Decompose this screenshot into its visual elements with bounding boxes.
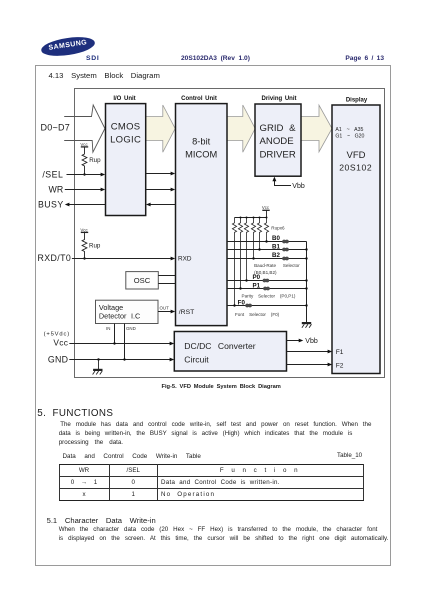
svg-text:/SEL: /SEL <box>42 169 63 179</box>
svg-text:Driving Unit: Driving Unit <box>262 96 297 102</box>
Samsung logo ellipse <box>40 34 96 58</box>
svg-text:Vcc: Vcc <box>262 205 270 210</box>
junction dot IN-Vcc <box>113 342 115 344</box>
wire OSC to MICOM 2 <box>158 283 175 285</box>
GRID & ANODE DRIVER block U3 <box>255 104 301 176</box>
svg-text:Detector I.C: Detector I.C <box>99 311 140 320</box>
svg-text:LOGIC: LOGIC <box>110 134 141 145</box>
OSC block <box>126 272 159 289</box>
svg-text:Vcc: Vcc <box>53 337 68 347</box>
8-bit MICOM block U2 <box>176 104 228 326</box>
svg-text:(B0,B1,B2): (B0,B1,B2) <box>254 270 277 275</box>
wire row P1 <box>227 288 307 290</box>
section 5 paragraph <box>60 421 371 428</box>
svg-text:F2: F2 <box>336 362 344 369</box>
section 5.1 heading <box>47 516 156 525</box>
junction dot GNDpin-GND <box>123 358 125 360</box>
svg-text:Font Selector (F0): Font Selector (F0) <box>235 312 280 317</box>
data and control code write-in table <box>59 464 364 501</box>
svg-text:BUSY: BUSY <box>38 200 64 210</box>
jumper B0 <box>282 240 289 244</box>
Voltage Detector I.C block <box>96 300 159 323</box>
bus arrow MICOM to driver <box>227 105 255 152</box>
svg-text:RXD: RXD <box>178 256 192 263</box>
svg-text:B2: B2 <box>272 252 280 259</box>
table number <box>337 452 362 459</box>
bus arrow D0-D7 to CMOS <box>64 105 105 152</box>
svg-text:A1 ~ A35: A1 ~ A35 <box>335 127 363 133</box>
wire Vbb to driver <box>275 181 292 186</box>
selector Vcc rail <box>235 217 267 219</box>
svg-text:Vbb: Vbb <box>305 338 318 345</box>
wire row B1 <box>227 249 307 251</box>
svg-text:Display: Display <box>346 97 368 103</box>
table label <box>63 453 201 460</box>
jumper P0 <box>263 279 270 283</box>
rail junction dots <box>240 217 268 219</box>
jumper F0 <box>245 304 252 308</box>
row junction dots <box>233 240 267 306</box>
svg-text:ANODE: ANODE <box>260 136 294 147</box>
wire row B2 <box>227 258 307 260</box>
svg-text:IN: IN <box>106 326 110 331</box>
CMOS LOGIC block U1 <box>106 104 146 216</box>
Samsung logo text <box>40 34 96 58</box>
wire Vbb output of DC/DC <box>287 340 300 342</box>
wire WR <box>65 189 102 191</box>
svg-text:I/O Unit: I/O Unit <box>113 96 135 102</box>
figure caption <box>162 384 281 390</box>
wire CMOS to MICOM sel <box>146 173 172 175</box>
junction dot Rup1-/SEL <box>83 173 85 175</box>
wire Vcc rail <box>69 343 170 345</box>
header page number <box>345 55 384 62</box>
pull-up resistor Rup1 with Vcc <box>80 142 88 175</box>
svg-text:F1: F1 <box>336 349 344 356</box>
svg-text:Rup: Rup <box>89 157 101 164</box>
svg-text:Parity Selector (P0,P1): Parity Selector (P0,P1) <box>242 293 296 298</box>
wire GND rail <box>69 359 170 361</box>
junction dot Rup2-RXD <box>83 257 85 259</box>
svg-text:OSC: OSC <box>134 276 151 285</box>
svg-text:CMOS: CMOS <box>111 121 141 132</box>
svg-text:F0: F0 <box>238 300 246 307</box>
svg-text:Circuit: Circuit <box>184 354 209 364</box>
svg-text:WR: WR <box>49 184 64 194</box>
ground symbol left <box>93 360 103 375</box>
svg-text:DRIVER: DRIVER <box>260 149 296 160</box>
svg-text:G1 ~ G20: G1 ~ G20 <box>335 134 364 140</box>
svg-text:VFD: VFD <box>347 150 366 161</box>
svg-text:P0: P0 <box>253 274 261 281</box>
jumper B2 <box>282 257 289 261</box>
DC/DC converter block <box>174 332 286 372</box>
wire row P0 <box>227 280 307 282</box>
svg-text:B1: B1 <box>272 244 280 251</box>
SDI logo text <box>86 55 99 62</box>
wire /SEL <box>67 174 102 176</box>
svg-text:GND: GND <box>48 354 68 364</box>
wire OSC to MICOM 1 <box>158 275 175 277</box>
ground symbol selector <box>302 323 312 328</box>
wire row F0 <box>227 305 307 307</box>
bus arrow CMOS to MICOM <box>146 105 176 152</box>
outer content box <box>35 65 392 567</box>
junction dot ground-GND <box>97 358 99 360</box>
wire CMOS to MICOM wr <box>146 189 172 191</box>
wire RXD/T0 to MICOM <box>72 258 172 260</box>
svg-text:B0: B0 <box>272 235 280 242</box>
bus arrow driver to VFD <box>301 105 332 152</box>
jumper B1 <box>282 248 289 252</box>
svg-text:GRID &: GRID & <box>260 123 297 134</box>
svg-text:Rup: Rup <box>89 243 101 250</box>
svg-text:8-bit: 8-bit <box>192 137 211 147</box>
bus to ground <box>306 242 308 323</box>
svg-text:Vbb: Vbb <box>292 183 305 190</box>
wire voltage detector GND pin <box>124 324 126 360</box>
resistor bank Rupx6 <box>232 218 268 306</box>
svg-text:Vcc: Vcc <box>80 227 88 232</box>
diagram frame <box>75 89 385 378</box>
svg-text:GND: GND <box>126 326 136 331</box>
wire BUSY <box>69 204 106 206</box>
svg-text:Baud-Rate Selector: Baud-Rate Selector <box>254 263 300 268</box>
svg-text:Vcc: Vcc <box>80 142 88 147</box>
svg-text:DC/DC Converter: DC/DC Converter <box>184 341 255 351</box>
wire row B0 <box>227 241 307 243</box>
wire voltage detector IN pin <box>114 324 116 344</box>
wire F1 <box>287 351 329 353</box>
section 5.1 paragraph <box>59 526 378 533</box>
header doc number <box>181 55 250 62</box>
svg-text:RXD/T0: RXD/T0 <box>38 253 72 263</box>
svg-text:MICOM: MICOM <box>185 150 217 160</box>
svg-text:D0~D7: D0~D7 <box>40 123 70 133</box>
wire voltage detector to MICOM /RST <box>158 311 172 313</box>
wire F2 <box>287 364 329 366</box>
svg-text:Rupx6: Rupx6 <box>271 225 285 230</box>
svg-text:20S102: 20S102 <box>339 162 372 172</box>
jumper P1 <box>263 287 270 291</box>
svg-text:Control Unit: Control Unit <box>181 96 217 102</box>
VFD 20S102 display block <box>332 105 380 374</box>
svg-text:OUT: OUT <box>160 306 170 311</box>
selector Vcc symbol <box>262 205 270 218</box>
section 4.13 heading <box>49 71 160 80</box>
pull-up resistor Rup2 with Vcc <box>80 227 88 258</box>
svg-text:P1: P1 <box>253 283 261 290</box>
section 5 heading <box>37 408 113 419</box>
svg-text:/RST: /RST <box>179 309 194 316</box>
wire MICOM to CMOS busy <box>150 204 176 206</box>
